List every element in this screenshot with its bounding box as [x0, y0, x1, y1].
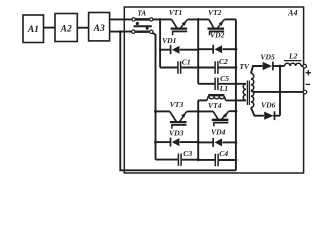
wire VT2 emitter to right rail [225, 18, 236, 20]
node VD1 left junction [159, 49, 161, 51]
diode VD6 [261, 100, 280, 120]
svg-text:A3: A3 [93, 24, 105, 34]
transistor VT3 [170, 100, 187, 129]
wire mid rail (vertical, VT3 emitter / VT4 collector / VD3-VD4) [197, 100, 199, 159]
diode VD1 [160, 36, 198, 54]
wire A1-A2 [44, 27, 56, 29]
inductor L2 [284, 51, 303, 66]
svg-text:L2: L2 [288, 51, 298, 60]
wire TA secondary right lead down to VT3 [153, 33, 156, 160]
wire TV center tap to minus terminal [251, 91, 303, 92]
svg-text:C5: C5 [220, 74, 229, 83]
svg-text:VT2: VT2 [208, 8, 222, 17]
wire VT3 emitter to VT4 collector [187, 110, 213, 112]
capacitor C1 [160, 57, 198, 73]
wire return bus: down left side and along bottom [120, 32, 236, 171]
wire A2-A3 [77, 27, 88, 29]
svg-text:C4: C4 [219, 149, 228, 158]
capacitor C3 [156, 149, 199, 166]
node VT4 emitter joins right rail [235, 110, 238, 113]
capacitor C2 [198, 57, 236, 74]
wire to VT3 collector [156, 110, 170, 112]
capacitor C4 [198, 149, 236, 166]
node C4 right junction [235, 159, 238, 162]
wire A3 to TA secondary (bottom) [110, 31, 132, 33]
transistor VT2 [208, 8, 225, 35]
svg-text:VD6: VD6 [261, 100, 276, 109]
svg-text:A4: A4 [287, 8, 297, 17]
node C3/C4 junction [197, 158, 200, 161]
inductor L1 [198, 84, 246, 100]
node VD5/VD6 cathode junction [279, 65, 282, 68]
diode VD5 [260, 53, 284, 71]
wire VD6 cathode rail (vertical) [279, 66, 281, 116]
svg-text:C2: C2 [219, 57, 228, 66]
node mid rail junction [197, 110, 200, 113]
node: junction to VD2/C2 rail [197, 18, 200, 21]
svg-text:L1: L1 [219, 84, 229, 93]
node C2 right junction [235, 66, 238, 69]
node VD2 anode to right rail [235, 48, 238, 51]
svg-text:VD3: VD3 [169, 129, 184, 138]
wire rail VD1/C1 left (vertical) [159, 19, 161, 67]
node VD4 right junction [235, 141, 238, 144]
current transformer TA [132, 10, 153, 34]
wire TV secondary top lead to VD5 [251, 66, 263, 73]
svg-text:VT4: VT4 [208, 101, 222, 110]
diode VD4 [198, 128, 236, 147]
wire TV secondary bottom lead to VD6 [251, 108, 264, 116]
node C1/C2 junction [197, 66, 200, 69]
svg-text:TA: TA [137, 10, 146, 18]
svg-text:A1: A1 [27, 25, 39, 35]
svg-text:VD2: VD2 [210, 31, 225, 40]
node VD3/VD4 junction [197, 141, 200, 144]
svg-text:A2: A2 [60, 24, 72, 34]
node TA lead joins VT3 collector wire [154, 110, 157, 113]
wire VT1 emitter to VT2 collector [188, 18, 209, 20]
svg-text:VD1: VD1 [162, 36, 177, 45]
block A4 (outline) [124, 7, 303, 173]
transformer TV [239, 62, 253, 108]
output terminal - [303, 84, 310, 93]
capacitor C5 (blocking, in series with TV primary) [198, 74, 246, 90]
svg-text:VT1: VT1 [169, 8, 183, 17]
node VD6 cathode rail crosses tap wire [279, 91, 281, 93]
output terminal + [303, 64, 311, 75]
block A1 [23, 15, 44, 43]
transistor VT1 [169, 8, 188, 35]
node: top bus junction to VD1/C1 rail [159, 18, 162, 21]
wire right rail (vertical, VT2/VT4 emitter bus) [235, 19, 237, 170]
svg-text:C3: C3 [183, 149, 192, 158]
wire VT4 emitter to right rail [229, 110, 236, 112]
svg-text:VD5: VD5 [260, 53, 275, 62]
svg-text:TV: TV [239, 62, 250, 71]
wire rail VD2/C2/C5 left (vertical) [197, 19, 199, 83]
node: junction of return bus on A3 bottom wire [119, 30, 122, 33]
wire A3 to TA primary (top) [110, 18, 132, 20]
wire TA to VT1 collector [153, 18, 172, 20]
diode VD3 [156, 129, 199, 147]
transistor VT4 [208, 101, 229, 126]
node VD3 left junction [154, 141, 157, 144]
svg-text:VD4: VD4 [211, 128, 226, 137]
diode VD2 [198, 31, 236, 54]
block A3 [89, 13, 110, 41]
svg-text:C1: C1 [182, 57, 191, 66]
svg-text:VT3: VT3 [170, 100, 184, 109]
block A2 [55, 14, 77, 42]
node VD1 anode to VT2 rail [197, 48, 200, 51]
